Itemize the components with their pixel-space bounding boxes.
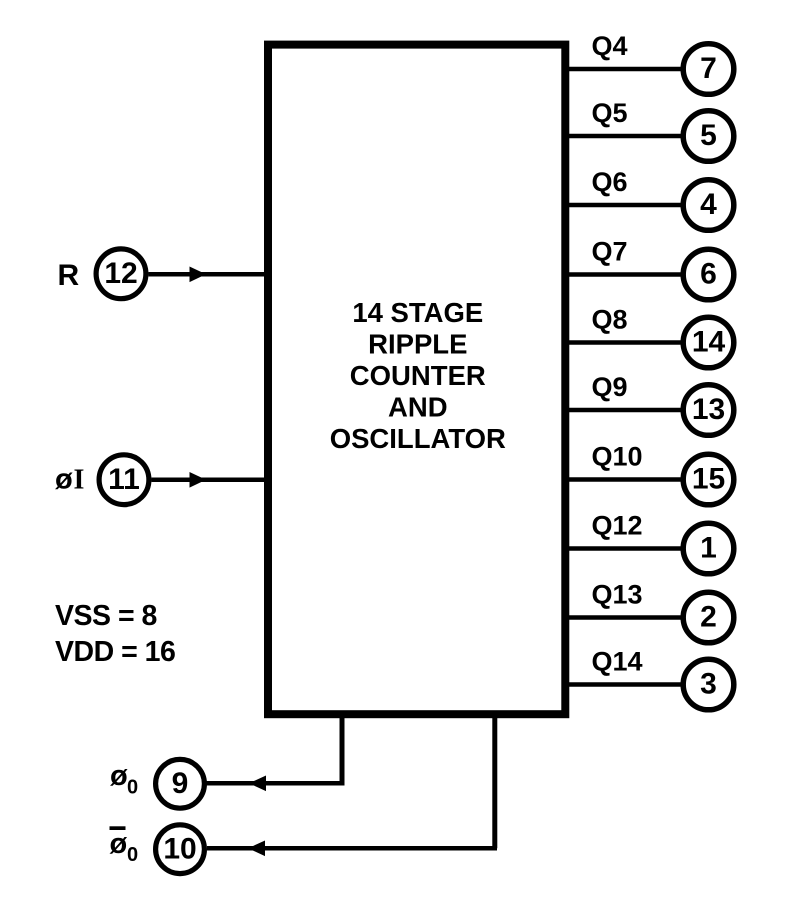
output Q9 wire xyxy=(565,408,684,413)
svg-text:7: 7 xyxy=(700,52,717,85)
svg-text:R: R xyxy=(58,259,80,292)
pin circle 14 xyxy=(683,317,734,368)
wire phase-0-bar horizontal xyxy=(207,846,497,851)
svg-text:VSS = 8: VSS = 8 xyxy=(55,600,157,632)
pin circle 1 xyxy=(683,523,734,574)
output Q4 wire xyxy=(565,67,684,72)
output Q6 wire xyxy=(565,203,684,208)
svg-text:9: 9 xyxy=(172,767,189,800)
pin circle 13 xyxy=(683,385,734,436)
svg-text:VDD = 16: VDD = 16 xyxy=(55,636,175,668)
pin circle 15 xyxy=(683,454,734,505)
svg-text:4: 4 xyxy=(700,188,717,221)
svg-text:2: 2 xyxy=(700,601,717,634)
svg-text:13: 13 xyxy=(692,393,725,426)
svg-text:ø: ø xyxy=(110,828,128,860)
wire phase-0 vertical drop xyxy=(340,712,345,783)
svg-text:I: I xyxy=(74,464,85,495)
wire phase-0 horizontal xyxy=(206,781,345,786)
input phase-I label xyxy=(55,464,84,496)
svg-text:COUNTER: COUNTER xyxy=(350,360,486,391)
svg-text:Q13: Q13 xyxy=(592,580,643,610)
svg-text:10: 10 xyxy=(163,832,196,865)
wire R input xyxy=(149,272,269,277)
svg-text:Q6: Q6 xyxy=(592,167,628,197)
output Q12 wire xyxy=(565,546,684,551)
block U1: 14 stage ripple counter and oscillator xyxy=(268,45,565,715)
pin circle 2 xyxy=(683,592,734,643)
label phase-0 xyxy=(110,760,138,799)
pin circle 12 xyxy=(96,249,146,299)
output Q8 wire xyxy=(565,340,684,345)
wire phase-0-bar vertical drop xyxy=(492,712,497,848)
svg-text:5: 5 xyxy=(700,119,717,152)
arrowhead phase-0 output xyxy=(249,776,266,792)
output Q5 wire xyxy=(565,134,684,139)
output Q14 wire xyxy=(565,682,684,687)
arrowhead R input xyxy=(190,267,207,283)
pin circle 5 xyxy=(683,111,734,162)
svg-text:Q4: Q4 xyxy=(592,31,628,61)
svg-text:1: 1 xyxy=(700,532,717,565)
pin circle 6 xyxy=(683,249,734,300)
svg-text:14: 14 xyxy=(692,326,726,359)
svg-text:6: 6 xyxy=(700,258,717,291)
svg-text:Q14: Q14 xyxy=(592,647,643,677)
output Q13 wire xyxy=(565,615,684,620)
svg-text:Q5: Q5 xyxy=(592,98,628,128)
pin circle 7 xyxy=(683,44,734,95)
output Q10 wire xyxy=(565,477,684,482)
arrowhead phase-I input xyxy=(190,472,207,488)
svg-text:15: 15 xyxy=(692,463,725,496)
svg-text:Q10: Q10 xyxy=(592,442,643,472)
pin circle 10 xyxy=(156,825,205,874)
svg-text:11: 11 xyxy=(108,463,140,496)
svg-text:12: 12 xyxy=(104,257,137,290)
svg-text:Q9: Q9 xyxy=(592,372,628,402)
arrowhead phase-0-bar output xyxy=(248,841,265,857)
pin circle 11 xyxy=(99,455,149,505)
svg-text:Q12: Q12 xyxy=(592,511,643,541)
svg-text:Q8: Q8 xyxy=(592,305,628,335)
svg-text:OSCILLATOR: OSCILLATOR xyxy=(330,423,506,454)
svg-text:ø: ø xyxy=(55,464,73,496)
svg-text:14 STAGE: 14 STAGE xyxy=(352,297,483,328)
pin circle 4 xyxy=(683,180,734,231)
svg-text:0: 0 xyxy=(127,777,138,799)
output Q7 wire xyxy=(565,272,684,277)
svg-text:AND: AND xyxy=(388,391,448,422)
svg-text:RIPPLE: RIPPLE xyxy=(368,329,467,360)
pin circle 3 xyxy=(683,659,734,710)
wire phase-I input xyxy=(152,478,269,483)
svg-text:3: 3 xyxy=(700,668,717,701)
svg-text:ø: ø xyxy=(110,760,128,792)
label phase-0-bar xyxy=(110,828,139,866)
block title text xyxy=(330,297,506,454)
svg-text:0: 0 xyxy=(127,844,138,866)
svg-text:Q7: Q7 xyxy=(592,237,628,267)
pin circle 9 xyxy=(156,759,205,808)
label phase-0-bar overbar xyxy=(110,826,126,830)
